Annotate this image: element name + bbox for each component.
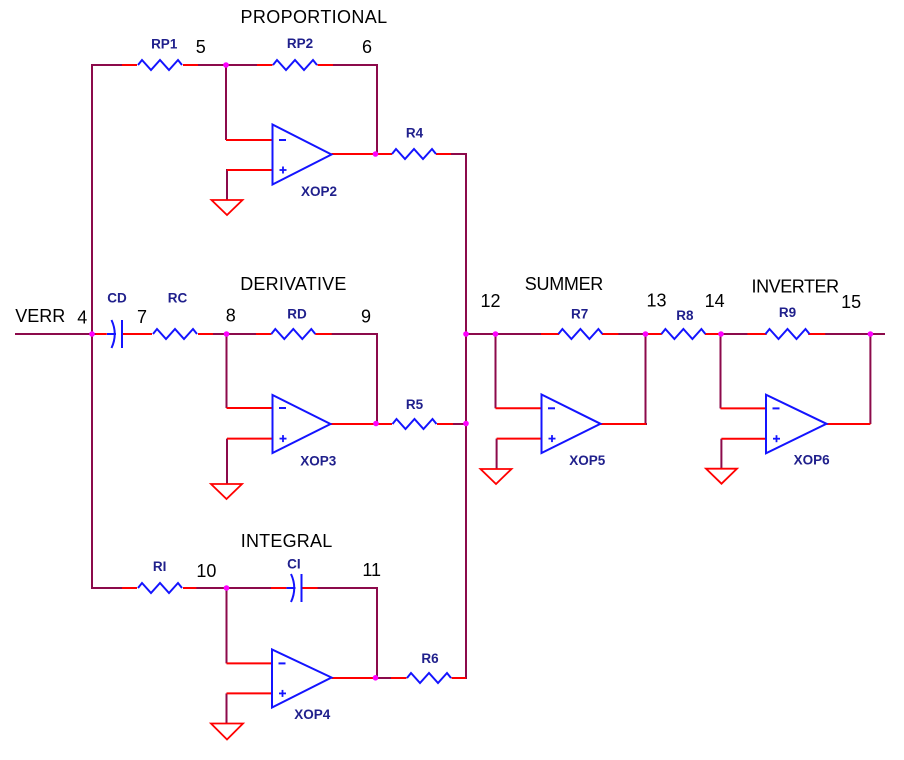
svg-text:15: 15 [841, 292, 861, 312]
svg-text:DERIVATIVE: DERIVATIVE [240, 274, 346, 294]
svg-text:RI: RI [153, 559, 167, 574]
svg-text:6: 6 [362, 37, 372, 57]
svg-text:14: 14 [705, 291, 725, 311]
svg-text:10: 10 [196, 561, 216, 581]
svg-text:RC: RC [168, 290, 188, 305]
svg-text:11: 11 [362, 560, 381, 580]
svg-text:R7: R7 [571, 306, 588, 321]
svg-text:XOP2: XOP2 [301, 184, 337, 199]
svg-text:R6: R6 [421, 651, 439, 666]
svg-text:4: 4 [77, 308, 87, 328]
svg-text:INVERTER: INVERTER [752, 276, 840, 296]
svg-text:12: 12 [480, 291, 500, 311]
svg-text:R9: R9 [779, 305, 796, 320]
svg-text:RD: RD [287, 306, 307, 321]
svg-text:XOP5: XOP5 [569, 453, 606, 468]
svg-text:SUMMER: SUMMER [525, 274, 603, 294]
svg-text:9: 9 [361, 307, 371, 327]
svg-text:R8: R8 [676, 308, 694, 323]
svg-text:CD: CD [107, 290, 127, 305]
svg-text:CI: CI [287, 557, 301, 572]
svg-text:8: 8 [226, 306, 236, 326]
svg-text:7: 7 [137, 307, 147, 327]
svg-text:PROPORTIONAL: PROPORTIONAL [241, 7, 388, 27]
svg-text:R4: R4 [406, 126, 424, 141]
svg-text:XOP3: XOP3 [300, 454, 337, 469]
svg-text:13: 13 [646, 290, 666, 310]
svg-text:INTEGRAL: INTEGRAL [241, 531, 333, 551]
svg-text:5: 5 [196, 37, 206, 57]
svg-text:XOP6: XOP6 [794, 453, 831, 468]
svg-text:RP2: RP2 [287, 36, 313, 51]
svg-text:R5: R5 [406, 397, 424, 412]
svg-text:VERR: VERR [15, 306, 65, 326]
svg-text:RP1: RP1 [151, 36, 178, 51]
svg-text:XOP4: XOP4 [294, 707, 331, 722]
